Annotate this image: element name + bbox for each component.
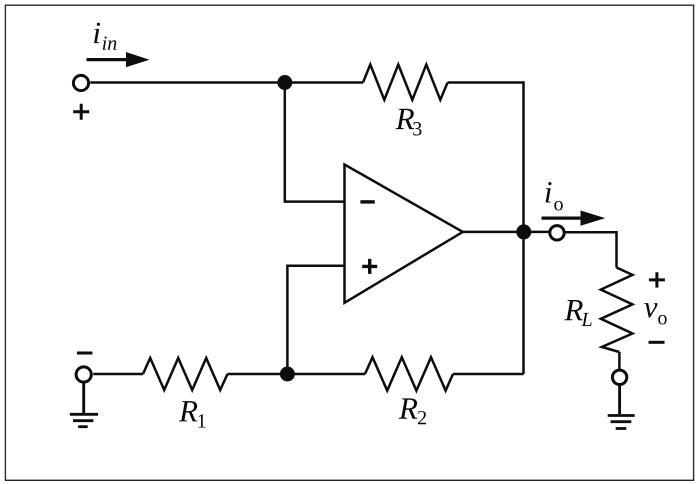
wire: RL bottom to output terminal: [618, 352, 621, 370]
node: top junction dot: [277, 75, 292, 90]
sign: plus at RL top (vo polarity): [649, 272, 665, 287]
terminal: output open circle: [550, 226, 564, 240]
wire: bottom-left terminal to R1: [93, 373, 143, 376]
wire: right vertical rail: [522, 81, 525, 374]
ground (right): [608, 416, 635, 429]
wire: R2 to right rail: [453, 373, 524, 376]
resistor RL: [601, 268, 633, 353]
node: output junction dot: [516, 224, 531, 239]
label RL: [564, 300, 591, 326]
terminal: input (top-left) open circle: [73, 75, 88, 90]
wire: R1 to R2 through junction: [228, 373, 366, 376]
arrow: i_in current: [87, 52, 150, 67]
arrow: i_o current: [542, 211, 606, 226]
node: bottom junction dot: [280, 367, 295, 382]
resistor R2: [365, 357, 453, 390]
wire: R3 to right rail: [448, 81, 524, 84]
op-amp U1 triangle: [345, 165, 463, 303]
wire: bottom junction up to non-inverting input: [287, 266, 344, 374]
sign: plus under input terminal: [73, 104, 89, 120]
wire: top junction down to inverting input: [285, 83, 345, 202]
wire: output circle to RL top: [564, 232, 616, 267]
resistor R1: [143, 358, 228, 390]
ground (left): [70, 414, 98, 426]
label i_o: [546, 182, 563, 211]
label R2: [399, 398, 426, 424]
label R1: [179, 401, 206, 427]
resistor R3: [363, 65, 448, 100]
label v_o: [644, 303, 666, 324]
sign: minus at RL bottom (vo polarity): [649, 341, 665, 344]
terminal: bottom-left open circle: [76, 367, 91, 382]
op-amp minus input sign: [360, 200, 374, 203]
wire: output terminal to right ground: [618, 385, 621, 414]
label R3: [396, 109, 422, 136]
wire: bottom-left terminal to left ground: [82, 383, 85, 413]
terminal: bottom-right open circle: [612, 370, 626, 384]
sign: minus above bottom-left terminal: [77, 352, 93, 355]
wire: op-amp output: [463, 231, 550, 234]
label i_in: [94, 23, 116, 50]
wire: input top rail: [90, 81, 363, 84]
op-amp plus input sign: [362, 259, 377, 274]
